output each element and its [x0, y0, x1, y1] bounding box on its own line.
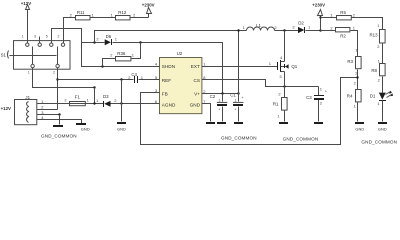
wire J1 pin1 to F1 [37, 103, 70, 105]
wire R11 to R12 [90, 17, 116, 19]
svg-text:V+: V+ [194, 91, 200, 96]
junction output / R5 tap [319, 16, 321, 18]
junction R3/R4 feedback tap [356, 76, 358, 78]
wire +12V rail top [95, 30, 299, 32]
wire R12 to +230V [131, 14, 149, 18]
svg-text:S1: S1 [1, 52, 7, 57]
LED D1 [370, 91, 394, 106]
wire S1 contact 3 to SHDN (net A) [52, 29, 160, 67]
svg-text:1: 1 [87, 97, 90, 102]
svg-text:R12: R12 [118, 10, 127, 15]
resistor R8 [371, 58, 385, 82]
svg-text:1: 1 [92, 13, 95, 18]
svg-text:1: 1 [320, 87, 323, 92]
wire D6 to +12V rail [95, 31, 239, 43]
svg-text:+12V: +12V [21, 1, 31, 6]
svg-text:+: + [218, 108, 220, 112]
diode D6 [96, 34, 117, 45]
svg-text:1: 1 [330, 13, 333, 18]
svg-text:D2: D2 [298, 21, 304, 26]
wire D3 node riser to REF row [121, 80, 123, 104]
svg-text:C2: C2 [210, 94, 216, 99]
svg-text:2: 2 [41, 104, 44, 109]
svg-text:1: 1 [308, 25, 311, 30]
svg-text:1: 1 [353, 25, 356, 30]
ground label GND_COMMON (R1/C3) [283, 136, 319, 141]
svg-text:1: 1 [377, 23, 380, 28]
resistor R12 [111, 10, 136, 20]
svg-text:R11: R11 [77, 10, 85, 15]
wire R2 row [321, 31, 358, 57]
ground (U2 GND) [206, 122, 215, 124]
svg-text:F1: F1 [75, 94, 81, 99]
svg-text:1: 1 [111, 13, 114, 18]
svg-text:+230V: +230V [312, 3, 325, 8]
svg-text:1: 1 [277, 113, 280, 118]
svg-text:2: 2 [330, 25, 333, 30]
svg-text:+: + [242, 96, 244, 100]
svg-text:R2: R2 [340, 33, 346, 38]
resistor R2 [330, 25, 355, 38]
wire +12V to S1 contact 1 [27, 10, 29, 44]
ground (C3) [314, 122, 323, 124]
wire F1 to D3 [86, 103, 104, 105]
svg-text:1: 1 [115, 36, 118, 41]
wire Q1 drain to rail [284, 31, 286, 62]
power label +12V (at J1) [1, 106, 11, 111]
svg-text:1: 1 [132, 53, 135, 58]
svg-text:2: 2 [378, 78, 381, 83]
svg-text:2: 2 [274, 25, 277, 30]
svg-text:2: 2 [58, 34, 60, 38]
svg-text:+12V: +12V [1, 106, 11, 111]
svg-text:GND_COMMON: GND_COMMON [221, 135, 257, 140]
wire R8 to D1 [382, 77, 384, 93]
diode D3 [96, 94, 117, 107]
svg-text:1: 1 [203, 61, 206, 66]
svg-text:1: 1 [28, 71, 30, 75]
junction node A / R36 tap [101, 65, 103, 67]
svg-text:2: 2 [278, 92, 281, 97]
junction V+ / C1 / rail riser [237, 92, 239, 94]
switch S1 [1, 37, 70, 70]
power +230V (output) [312, 3, 325, 31]
svg-text:1: 1 [96, 98, 99, 103]
svg-text:Q1: Q1 [291, 64, 297, 69]
svg-text:GND: GND [190, 102, 201, 107]
svg-text:4: 4 [280, 55, 283, 60]
svg-text:2: 2 [292, 25, 295, 30]
wire F1 node riser [94, 88, 96, 104]
svg-text:R3: R3 [347, 59, 353, 64]
wire CS row to Q1 source [202, 80, 319, 87]
junction CS / Q1 source / R1 [283, 85, 285, 87]
junction F1/D3 node [93, 102, 95, 104]
U2 pin numbers [155, 61, 206, 104]
svg-text:2: 2 [53, 71, 55, 75]
svg-text:AGND: AGND [162, 102, 176, 107]
junction pole1 row / F1 node [93, 86, 95, 88]
wire R3 to R4 [357, 70, 359, 90]
svg-text:1: 1 [378, 58, 381, 63]
svg-text:2: 2 [353, 13, 356, 18]
svg-text:R13: R13 [370, 33, 379, 38]
svg-text:1: 1 [377, 101, 380, 106]
svg-text:EXT: EXT [191, 64, 200, 69]
ground (R1) [279, 122, 288, 124]
junction rail / riser [237, 29, 239, 31]
svg-text:GND: GND [117, 126, 126, 131]
svg-text:R8: R8 [371, 68, 377, 73]
svg-text:+: + [234, 108, 236, 112]
svg-text:1: 1 [243, 25, 246, 30]
wire J1 pin4 [37, 120, 82, 124]
resistor R4 [347, 80, 361, 108]
diode D2 [292, 21, 311, 33]
svg-text:1: 1 [22, 34, 24, 38]
ground (C2) [217, 122, 226, 124]
wire S1 pole 1 down [33, 68, 95, 88]
wire FB net (feedback loop) [141, 78, 358, 145]
S1 pin numbers [22, 34, 60, 74]
wire J1 pin3 [37, 114, 60, 116]
junction D6 cathode / R36 [139, 41, 141, 43]
svg-text:REF: REF [162, 78, 172, 83]
svg-text:2: 2 [110, 53, 113, 58]
svg-text:GND: GND [355, 126, 364, 131]
junction J1 pin3 [58, 113, 60, 115]
svg-text:5: 5 [46, 34, 48, 38]
inductor L1 [243, 23, 278, 31]
wire REF row [58, 79, 160, 81]
wire +12V rail riser [238, 31, 240, 94]
junction D3 anode / GND branch [120, 102, 122, 104]
svg-text:D3: D3 [103, 94, 109, 99]
svg-text:4: 4 [155, 61, 158, 66]
ground (J1 pin4) [76, 123, 90, 131]
wire D2 to output node [306, 30, 336, 32]
svg-text:2: 2 [114, 98, 117, 103]
wire R5 to R13 [352, 18, 383, 30]
resistor R3 [347, 47, 361, 75]
svg-text:R36: R36 [117, 51, 126, 56]
wire Q1 source to CS node [284, 72, 286, 87]
resistor R5 [330, 10, 355, 20]
wire output to R5 [321, 17, 337, 19]
IC U2 regulator [160, 51, 202, 113]
svg-text:2: 2 [133, 13, 136, 18]
resistor R13 [370, 23, 386, 49]
ground (D1) [378, 101, 387, 132]
junction REF / D3 branch [120, 78, 122, 80]
svg-text:C3: C3 [306, 95, 312, 100]
wire S1 pole 2 to REF row [57, 68, 59, 110]
svg-text:GND_COMMON: GND_COMMON [283, 136, 319, 141]
ground (C1) [234, 122, 243, 124]
svg-text:+230V: +230V [142, 2, 155, 7]
svg-text:SHDN: SHDN [162, 64, 175, 69]
ground label GND_COMMON (middle) [221, 135, 257, 140]
wire R36 left to node A [103, 59, 116, 67]
svg-text:1: 1 [219, 98, 221, 102]
junction S1 pole 2 / REF [56, 78, 58, 80]
wire D6 row [82, 43, 223, 94]
svg-text:3: 3 [34, 34, 36, 38]
svg-text:GND_COMMON: GND_COMMON [41, 134, 77, 139]
svg-text:+: + [325, 89, 327, 93]
svg-text:CS: CS [194, 78, 201, 83]
connector J1 [15, 95, 45, 125]
resistor R1 [273, 87, 287, 122]
transistor Q1 [269, 55, 298, 79]
svg-text:D1: D1 [370, 93, 376, 98]
svg-text:1: 1 [354, 104, 357, 109]
svg-text:1: 1 [235, 98, 237, 102]
wire D3 to AGND [111, 103, 160, 105]
junction D6 anode [93, 41, 95, 43]
power +12V (top left) [21, 1, 31, 10]
power +230V (top middle) [142, 2, 155, 13]
ground (R4) [355, 102, 364, 132]
svg-text:2: 2 [64, 97, 67, 102]
svg-text:J1: J1 [25, 95, 30, 100]
svg-text:2: 2 [70, 13, 73, 18]
junction output node [319, 29, 321, 31]
ground GND_COMMON (J1) [41, 115, 77, 139]
svg-text:U2: U2 [177, 51, 183, 56]
capacitor C2 [210, 94, 228, 122]
svg-text:2: 2 [320, 100, 323, 105]
svg-text:3: 3 [279, 74, 282, 79]
svg-text:GND: GND [81, 126, 90, 131]
wire V+ row [202, 93, 239, 95]
resistor R36 [110, 51, 135, 61]
svg-text:C1: C1 [230, 93, 236, 98]
svg-text:R1: R1 [273, 101, 279, 106]
wire EXT row to Q1 gate [202, 66, 278, 68]
capacitor C1 [230, 93, 243, 122]
junction V+ / C2 [221, 92, 223, 94]
capacitor C4 [128, 72, 143, 83]
svg-text:1: 1 [269, 61, 272, 66]
wire R13 to R8 [382, 44, 384, 64]
wire R36 right to D6 cathode [131, 43, 141, 59]
svg-text:2: 2 [377, 44, 380, 49]
svg-text:FB: FB [162, 91, 168, 96]
junction L1 / Q1 drain [283, 29, 285, 31]
wire R11 to S1 contact 4 [64, 18, 76, 44]
svg-text:R5: R5 [340, 10, 346, 15]
svg-text:L1: L1 [256, 23, 261, 28]
ground label GND_COMMON (right) [361, 139, 397, 144]
svg-text:D6: D6 [106, 34, 112, 39]
wire J1 pin2 to S1 pole 2 [37, 109, 58, 111]
svg-text:2: 2 [96, 36, 99, 41]
svg-text:GND_COMMON: GND_COMMON [361, 139, 397, 144]
svg-text:GND: GND [378, 126, 387, 131]
fuse F1 [64, 94, 89, 105]
svg-text:2: 2 [354, 80, 357, 85]
wire U2 GND pin to ground [202, 104, 211, 122]
capacitor C3 [306, 87, 327, 122]
ground (D3 node) [117, 104, 126, 132]
resistor R11 [70, 10, 95, 20]
svg-text:C4: C4 [131, 72, 137, 77]
svg-text:R4: R4 [347, 94, 353, 99]
